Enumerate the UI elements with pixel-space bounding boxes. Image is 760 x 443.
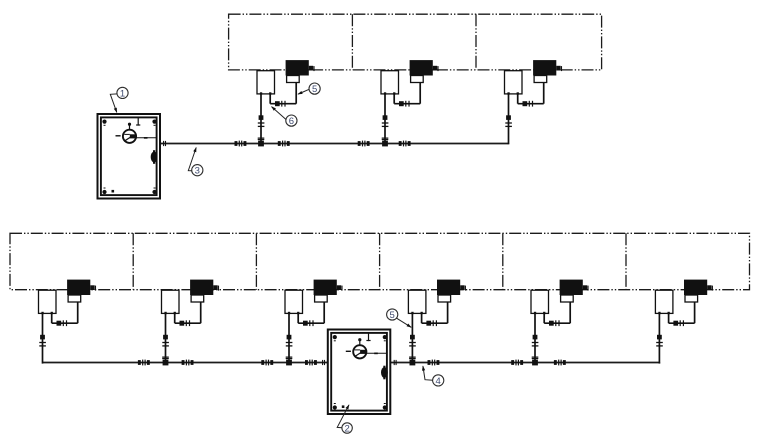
svg-text:2: 2 [344, 423, 349, 434]
svg-text:5: 5 [312, 84, 317, 95]
svg-text:1: 1 [120, 88, 125, 99]
svg-text:4: 4 [436, 376, 441, 387]
svg-text:5: 5 [390, 310, 395, 321]
svg-text:6: 6 [289, 116, 294, 127]
svg-text:3: 3 [195, 166, 200, 177]
